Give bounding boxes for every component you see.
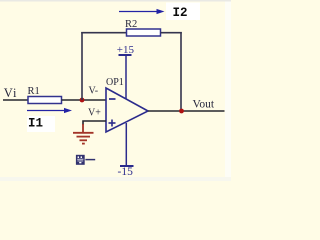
wire: op-amp output to Vout (148, 110, 225, 112)
label I2 (166, 3, 200, 21)
resistor R1 (28, 97, 62, 104)
wire: negative supply from op-amp (125, 123, 127, 166)
svg-text:Vout: Vout (193, 99, 215, 111)
wire: R1 to op-amp inverting input (62, 99, 107, 101)
power -15 bar (120, 165, 134, 167)
node: output junction (179, 109, 184, 114)
wire: non-inverting input to ground (83, 121, 106, 125)
svg-text:OP1: OP1 (106, 77, 124, 88)
arrow I2 (119, 9, 165, 14)
wire: positive supply into op-amp (125, 55, 127, 99)
wire: feedback vertical left (81, 32, 83, 100)
svg-text:Vi: Vi (4, 86, 18, 100)
arrow I1 (27, 108, 72, 113)
svg-text:-15: -15 (118, 166, 134, 178)
svg-text:I2: I2 (173, 6, 188, 20)
label I1 (27, 116, 55, 132)
op-amp plus input sign (109, 122, 116, 124)
label figure caption 圖一 (76, 155, 95, 165)
resistor R2 (127, 29, 161, 36)
svg-text:V-: V- (89, 86, 99, 97)
svg-text:R1: R1 (28, 86, 40, 97)
ground (73, 124, 94, 144)
wire: feedback vertical right down to output (180, 32, 182, 111)
svg-text:R2: R2 (125, 19, 137, 30)
svg-text:V+: V+ (88, 108, 101, 119)
op-amp minus input sign (109, 98, 116, 100)
wire: input Vi to R1 (3, 99, 28, 101)
wire: R2 to right corner (161, 32, 182, 34)
power +15 bar (119, 54, 132, 56)
svg-text:+15: +15 (117, 44, 135, 56)
page background (0, 0, 231, 181)
wire: feedback top to R2 (81, 32, 126, 34)
node: junction at inverting input (80, 98, 85, 103)
svg-text:I1: I1 (28, 117, 43, 131)
op-amp U1 triangle (106, 88, 148, 132)
